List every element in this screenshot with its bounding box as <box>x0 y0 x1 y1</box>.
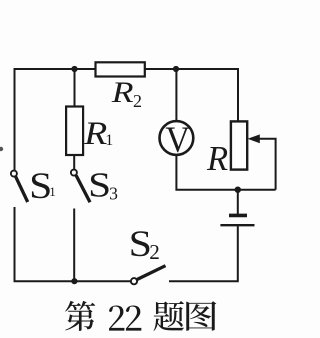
resistor R2 <box>96 62 145 76</box>
junction node voltmeter tap <box>173 66 179 72</box>
junction node R1 tap <box>71 66 77 72</box>
rheostat R body <box>231 121 247 169</box>
wire top-right horizontal and right rail to rheostat <box>145 69 239 122</box>
wire rheostat wiper loop <box>259 139 276 190</box>
wire battery bottom to bottom-right corner <box>169 226 238 281</box>
rheostat wiper arrowhead <box>248 134 260 143</box>
switch S1 pivot circle <box>11 171 17 177</box>
resistor R1 <box>66 107 83 156</box>
svg-text:2: 2 <box>133 91 142 111</box>
battery positive plate long thin <box>220 224 254 226</box>
battery negative plate short thick <box>229 214 247 218</box>
wire top-left horizontal and left rail <box>15 69 96 171</box>
wire R1 to S3 <box>73 155 75 170</box>
svg-text:1: 1 <box>49 184 56 199</box>
svg-text:R: R <box>111 77 134 109</box>
paper speck left edge <box>0 147 3 151</box>
svg-text:2: 2 <box>149 240 160 264</box>
voltmeter U1 circle <box>160 121 194 155</box>
switch S3 lever <box>76 175 90 202</box>
caption char 图 <box>186 301 216 331</box>
caption char 第 <box>65 301 95 331</box>
svg-text:1: 1 <box>105 132 113 149</box>
svg-text:S: S <box>88 166 111 205</box>
svg-text:V: V <box>165 120 190 161</box>
wire S3 lower stub <box>73 209 75 282</box>
caption digits 22 <box>109 305 124 330</box>
svg-text:R: R <box>206 140 228 178</box>
wire battery top <box>237 190 239 214</box>
svg-text:3: 3 <box>109 183 118 203</box>
wire voltmeter upper <box>175 69 177 121</box>
caption char 题 <box>154 301 184 331</box>
junction node bottom rail <box>71 278 77 284</box>
switch S3 pivot circle <box>71 170 77 176</box>
wire voltmeter lower to mid node <box>176 155 275 190</box>
switch S2 pivot circle <box>131 278 137 284</box>
switch S1 lever <box>16 176 28 202</box>
wire bottom-left segment <box>15 207 131 281</box>
wire R1 branch upper <box>74 69 76 107</box>
svg-text:R: R <box>83 116 107 152</box>
junction node battery top <box>235 187 241 193</box>
switch S2 lever <box>137 266 166 280</box>
